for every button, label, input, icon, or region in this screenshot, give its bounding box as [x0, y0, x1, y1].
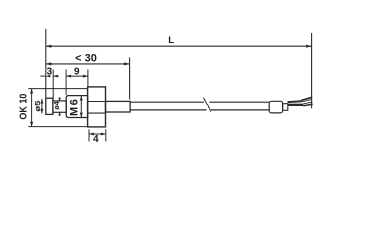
dimension OK10 line — [31, 89, 33, 127]
dimension M6 bottom arrowhead — [80, 113, 83, 118]
dimension L line — [46, 45, 312, 47]
svg-text:4: 4 — [93, 134, 99, 145]
svg-text:OK 10: OK 10 — [18, 94, 30, 120]
extension line for <30 right (sleeve end) — [129, 58, 131, 100]
dimension 4 line — [89, 133, 106, 135]
extension line M6 left — [65, 70, 67, 96]
upper wire stripped end top — [301, 97, 312, 100]
dimension <30 line — [46, 63, 130, 65]
dimension 4 extension line right — [105, 129, 107, 141]
dimension M6 line — [80, 96, 82, 118]
cable break slash upper — [203, 98, 207, 105]
dimension 4 left arrowhead — [89, 133, 94, 136]
svg-text:9: 9 — [74, 67, 80, 78]
dimension diameter4 bottom arrow — [59, 112, 61, 116]
dimension diameter5 top arrowhead — [40, 99, 43, 104]
dimension <30 right arrowhead — [124, 62, 130, 65]
svg-text:ø4: ø4 — [54, 101, 61, 109]
dimension 9 line — [66, 75, 88, 77]
M6 threaded block — [66, 96, 87, 118]
svg-text:ø5: ø5 — [33, 100, 41, 111]
hex facet line lower — [88, 112, 106, 114]
dimension 9 right arrowhead — [83, 75, 88, 78]
cable top line segment 2 — [209, 101, 269, 103]
dimension L right arrowhead — [306, 45, 312, 48]
svg-text:3: 3 — [47, 67, 53, 78]
extension line tip right edge — [52, 70, 54, 101]
end ferrule nose — [283, 104, 288, 111]
cable break slash lower — [207, 104, 211, 111]
extension line hex left — [87, 70, 89, 87]
end ferrule body — [269, 101, 282, 113]
svg-text:< 30: < 30 — [75, 53, 97, 65]
extension line left (probe tip face) — [45, 29, 47, 98]
probe neck rectangle — [53, 101, 66, 112]
dimension OK10 top arrowhead — [30, 89, 33, 94]
strain relief sleeve — [106, 101, 131, 112]
extension line hex bottom (OK10) — [28, 126, 88, 128]
lower wire stub — [288, 104, 304, 106]
lower wire stripped end top — [303, 102, 312, 104]
dimension 9 left arrowhead — [66, 75, 71, 78]
upper wire stub — [288, 100, 302, 103]
extension line right (cable end) — [311, 33, 313, 108]
dimension 3: right outside arrow — [53, 75, 59, 77]
lower wire stripped end bottom — [303, 104, 312, 106]
dimension diameter5 bottom arrowhead — [40, 109, 43, 114]
dimension 4 right arrowhead — [101, 133, 106, 136]
cable bottom line segment 2 — [211, 109, 269, 111]
dimension M6 top arrowhead — [80, 96, 83, 101]
svg-text:L: L — [168, 35, 174, 46]
extension line hex top (OK10) — [28, 88, 87, 90]
cable top line segment 1 — [130, 101, 204, 103]
dimension L left arrowhead — [46, 45, 52, 48]
hex body rectangle — [88, 87, 106, 127]
upper wire stripped end bottom — [302, 99, 313, 102]
dimension 3: left outside arrow — [40, 75, 46, 77]
dimension OK10 bottom arrowhead — [30, 122, 33, 127]
dimension diameter4 top arrow — [59, 97, 61, 101]
probe tip rectangle — [46, 98, 53, 114]
dimension diameter5 line — [41, 99, 43, 114]
cable bottom line segment 1 — [130, 109, 207, 111]
dimension 4 extension line left — [88, 129, 90, 141]
dimension <30 left arrowhead — [46, 62, 52, 65]
hex facet line upper — [88, 101, 106, 103]
svg-text:M6: M6 — [68, 98, 80, 116]
